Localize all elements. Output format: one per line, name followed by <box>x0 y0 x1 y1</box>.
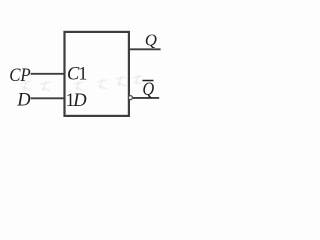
svg-text:CP: CP <box>9 64 31 85</box>
inversion bubble on Qbar output <box>128 96 132 100</box>
svg-text:Q: Q <box>142 78 154 99</box>
wire D input <box>31 97 65 99</box>
svg-text:Q: Q <box>145 30 157 49</box>
wire CP input <box>31 73 65 75</box>
wire Qbar output <box>133 97 159 99</box>
wire Q output <box>129 48 161 50</box>
D latch U1 body <box>65 32 129 116</box>
svg-text:1: 1 <box>78 65 87 85</box>
Qbar overline <box>142 80 153 82</box>
svg-text:D: D <box>72 91 87 111</box>
svg-text:D: D <box>16 91 31 111</box>
